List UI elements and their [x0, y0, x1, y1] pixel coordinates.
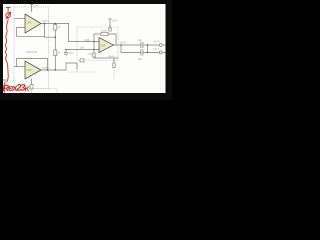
svg-text:10u: 10u — [138, 38, 143, 42]
svg-text:OUT2: OUT2 — [42, 66, 49, 70]
svg-text:10k: 10k — [80, 45, 85, 49]
svg-text:10u: 10u — [69, 51, 74, 55]
svg-text:+24V: +24V — [33, 5, 39, 7]
svg-text:OUT-: OUT- — [154, 47, 160, 51]
svg-text:VOUT: VOUT — [120, 40, 128, 44]
svg-text:+24V: +24V — [112, 20, 118, 22]
svg-text:OPA: OPA — [100, 45, 105, 48]
svg-text:10u: 10u — [138, 57, 143, 61]
svg-text:OUT1: OUT1 — [42, 19, 49, 23]
svg-text:OUT+: OUT+ — [154, 39, 161, 43]
svg-text:OPA: OPA — [27, 21, 32, 24]
svg-text:AGND: AGND — [109, 55, 116, 58]
svg-text:100k: 100k — [101, 28, 107, 32]
svg-text:OPA: OPA — [27, 69, 32, 72]
svg-text:100k: 100k — [84, 38, 90, 42]
svg-text:OPA2134: OPA2134 — [26, 50, 38, 54]
